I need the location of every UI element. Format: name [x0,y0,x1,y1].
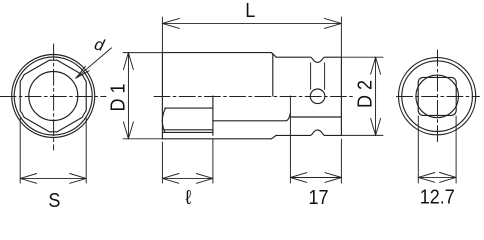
side view shoulder face edge [272,54,274,96]
rear view vertical centerline [437,50,439,143]
front view rim chamfer circle [14,57,92,135]
side view pin hole circle [310,89,325,104]
svg-text:D 1: D 1 [108,84,130,112]
dimension D2 extension lines [341,57,383,135]
dimension L arrowheads [162,18,179,28]
svg-text:17: 17 [308,187,328,209]
front view hex bore with corner reliefs [20,60,86,132]
side view centerline [154,95,353,97]
side view groove wall left [310,63,312,90]
rear view square drive hole [418,77,456,115]
side view right face [340,57,342,135]
side view hex bore near flat line [165,107,213,109]
rear view horizontal centerline [397,95,480,97]
side view drive-end top edge with retaining ring groove [276,57,341,62]
leader arrowhead for d [76,66,89,78]
side view drive-end bottom edge with groove bump [276,130,341,136]
side view groove wall right [324,63,326,90]
dimension L extension line left [161,17,163,53]
front view vertical centerline [53,44,55,150]
dimension 12.7 arrowheads [418,173,435,183]
dimension L extension line right [340,17,342,57]
side view bore entry chamfer arc [162,108,165,132]
front view horizontal centerline [0,95,106,97]
side view through-bore wall line [213,113,291,121]
side view body bottom edge [162,138,271,140]
dimension D1 line [127,53,129,139]
dimension l arrowheads [162,174,179,184]
dimension D1 arrowheads [123,53,133,70]
side view left face [161,53,163,139]
rear view square hole chamfer circle [416,75,459,118]
side view hex bore far corner line [164,129,213,131]
dimension 12.7 extension lines [418,116,456,183]
svg-text:d: d [93,35,107,55]
dimension 17 line [290,177,341,179]
dimension l line [162,177,213,179]
side view hex bore depth line [212,96,214,135]
dimension D1 extension lines [123,53,162,139]
dimension l extension lines [162,139,213,183]
svg-text:ℓ: ℓ [185,187,191,209]
side view body top edge [162,52,271,54]
dimension D2 arrowheads [371,57,381,74]
rear view rim chamfer circle [402,61,473,132]
front view bore circle d [29,72,78,121]
side view square bore end wall / 17 extension line [289,96,291,183]
leader line for d [76,48,112,78]
dimension 17 extension line right [340,139,342,183]
dimension S arrowheads [20,174,37,184]
svg-text:12.7: 12.7 [420,187,455,209]
side view square bore wall line [290,116,341,118]
front view outer circle (OD of socket head) [12,55,95,138]
rear view outer circle [399,58,476,135]
svg-text:D 2: D 2 [355,80,377,108]
dimension S line [20,177,86,179]
svg-text:S: S [48,190,60,209]
dimension 17 arrowheads [290,173,307,183]
dimension L line [162,22,341,24]
dimension 12.7 line [418,176,456,178]
side view bore chamfer line [163,131,213,133]
dimension S extension lines [20,118,86,183]
svg-text:L: L [245,0,255,22]
dimension D2 line [375,57,377,135]
side view shoulder chamfer bottom [271,135,276,138]
side view shoulder chamfer top [271,53,276,58]
